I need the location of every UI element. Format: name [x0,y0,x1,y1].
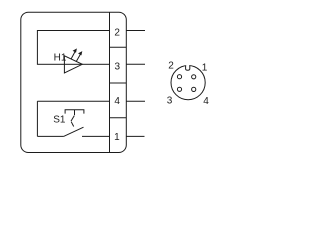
device enclosure outline [21,12,127,152]
connector face outer circle [171,66,205,100]
connector pin 3 contact [177,87,181,91]
terminal divider between 2 and 3 [110,46,127,48]
connector pin 2 contact [177,75,181,79]
terminal 3 external lead [126,63,145,65]
svg-text:3: 3 [167,96,173,107]
svg-text:4: 4 [203,96,209,107]
lamp H1 emission arrow right [76,51,82,62]
svg-text:2: 2 [114,28,120,39]
switch S1 actuator stem [74,110,76,115]
switch S1 box top wire [37,100,109,102]
lamp H1 circuit loop wire [37,31,109,65]
switch S1 bottom wire left segment [37,135,63,137]
switch S1 box right wire [109,101,111,136]
switch S1 box left wire [36,101,38,136]
switch S1 linkage dash lower [71,122,74,127]
svg-text:1: 1 [114,132,120,143]
svg-text:4: 4 [114,96,120,107]
switch S1 contact lever [64,127,84,136]
terminal divider between 4 and 1 [110,117,127,119]
connector pin 1 contact [192,75,196,79]
svg-text:1: 1 [202,62,208,73]
lamp H1 emission arrow left [71,48,77,59]
terminal 4 external lead [126,100,145,102]
terminal 1 external lead [126,135,144,137]
connector pin 4 contact [192,87,196,91]
svg-text:S1: S1 [53,115,66,126]
svg-text:3: 3 [115,62,121,73]
terminal 2 external lead [126,30,145,32]
svg-text:2: 2 [168,60,174,71]
terminal strip inner edge [109,12,111,152]
terminal divider between 3 and 4 [110,82,127,84]
lamp H1 triangle symbol [64,56,82,73]
connector keyway notch [186,66,190,71]
switch S1 bottom wire right segment [82,135,110,137]
switch S1 linkage dash upper [71,116,74,122]
connector keyway mask [186,64,189,66]
switch S1 actuator bracket [65,110,84,114]
